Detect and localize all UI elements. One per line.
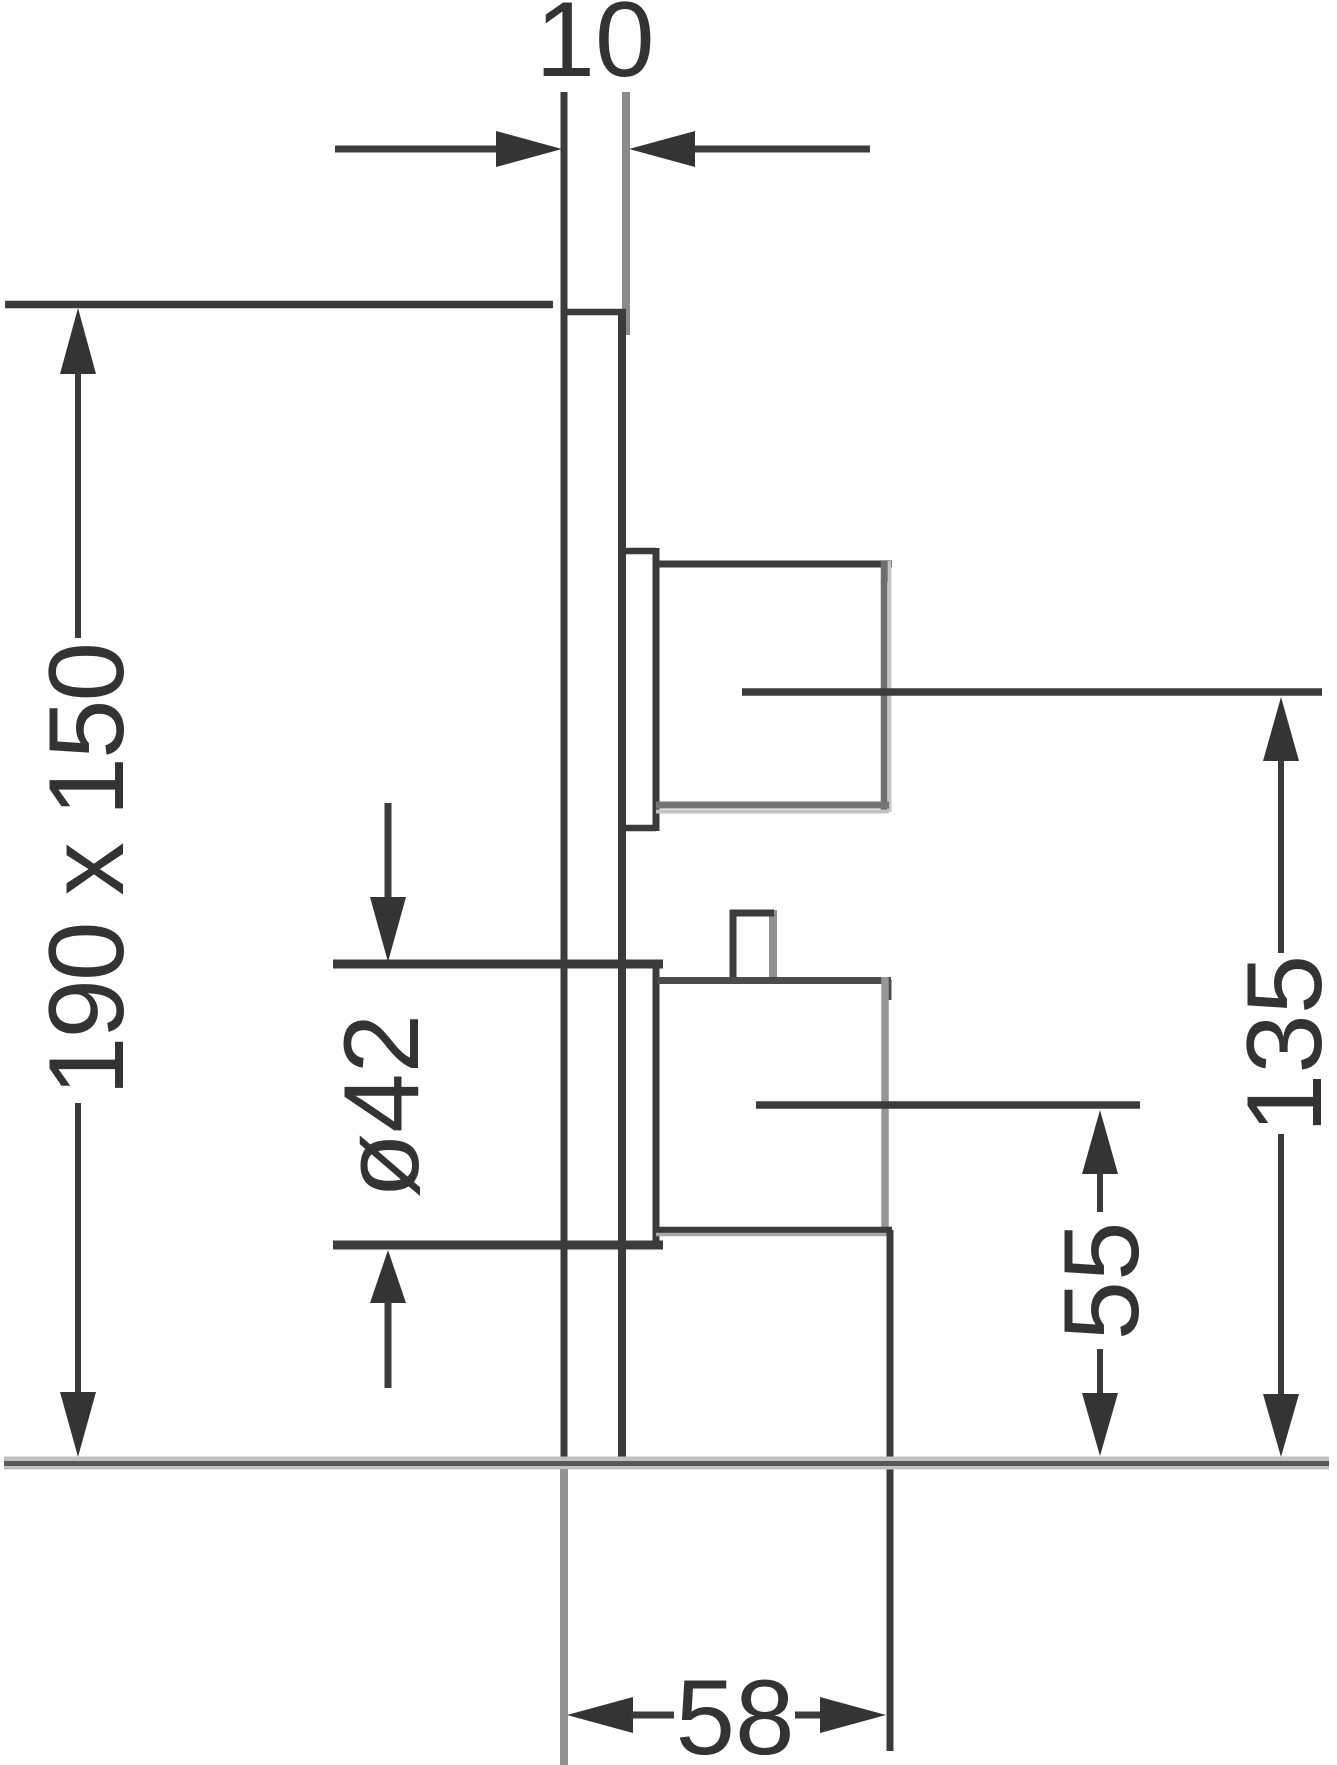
svg-text:55: 55: [1041, 1221, 1161, 1340]
58 dim right stem: [795, 1712, 820, 1719]
dim line 10 right segment: [694, 146, 870, 153]
upper valve body right edge: [881, 561, 888, 810]
wall plate top edge: [561, 309, 626, 316]
135 dim arrow up: [1263, 697, 1299, 761]
dimension label o42: [321, 1014, 441, 1198]
o42 up arrow stem: [385, 1301, 392, 1388]
svg-text:ø42: ø42: [321, 1014, 441, 1198]
dim line 10 left segment: [335, 146, 500, 153]
wall plate right edge: [618, 309, 626, 1459]
o42 down arrow stem: [385, 803, 392, 901]
135 dim arrow down: [1263, 1394, 1299, 1457]
lower flange right edge: [653, 964, 660, 1245]
extension line right of 10 dim: [622, 92, 630, 335]
o42 upper boundary line: [333, 960, 663, 969]
wall plate left edge: [561, 309, 568, 1459]
leader line upper body: [742, 688, 1322, 696]
o42 lower boundary line: [333, 1241, 663, 1250]
upper flange right edge: [653, 548, 660, 831]
55 dim arrow up: [1082, 1110, 1118, 1174]
lower valve body top edge: [657, 977, 891, 984]
handle tab right edge: [769, 910, 777, 978]
lower body right edge extension below: [887, 1230, 894, 1751]
arrowhead 10 left: [496, 131, 562, 167]
arrowhead 10 right: [629, 131, 695, 167]
upper flange bottom edge: [620, 825, 656, 832]
dimension label 55: [1041, 1221, 1161, 1340]
o42 up arrowhead: [370, 1250, 406, 1303]
135 dim line lower segment: [1278, 1134, 1284, 1398]
leader line lower body: [756, 1101, 1140, 1109]
190x150 dim line upper segment: [75, 372, 81, 638]
upper flange top edge: [620, 548, 656, 555]
svg-text:190 x 150: 190 x 150: [26, 644, 146, 1096]
upper valve body top right corner stub: [885, 564, 892, 582]
top extension line of 190x150 dim: [5, 301, 553, 309]
135 dim line upper segment: [1278, 759, 1284, 953]
dimension label 135: [1224, 955, 1337, 1134]
dimension label 190 x 150: [26, 644, 146, 1096]
plate left extension below ground: [560, 1469, 568, 1765]
55 dim arrow down: [1082, 1393, 1118, 1456]
ground line halo: [4, 1457, 1329, 1470]
lower valve body right edge: [881, 977, 889, 1230]
o42 down arrowhead: [370, 897, 406, 962]
handle tab top edge: [730, 910, 774, 917]
upper valve body bottom edge: [656, 802, 889, 809]
svg-text:135: 135: [1224, 955, 1337, 1134]
55 dim line upper segment: [1097, 1172, 1103, 1212]
lower valve body top right corner stub: [885, 980, 892, 1000]
58 dim left arrowhead: [567, 1697, 633, 1733]
upper valve body top edge: [656, 561, 892, 568]
svg-text:10: 10: [535, 0, 654, 99]
extension line left of 10 dim: [561, 92, 568, 312]
ground line core: [4, 1461, 1329, 1466]
handle tab left edge: [730, 910, 737, 978]
190x150 dim arrow down: [60, 1392, 96, 1457]
58 dim left stem: [631, 1712, 674, 1719]
lower valve body bottom edge: [654, 1227, 892, 1234]
190x150 dim arrow up: [60, 308, 96, 374]
190x150 dim line lower segment: [75, 1103, 81, 1394]
55 dim line lower segment: [1097, 1349, 1103, 1393]
svg-text:58: 58: [675, 1657, 794, 1765]
58 dim right arrowhead: [820, 1697, 886, 1733]
